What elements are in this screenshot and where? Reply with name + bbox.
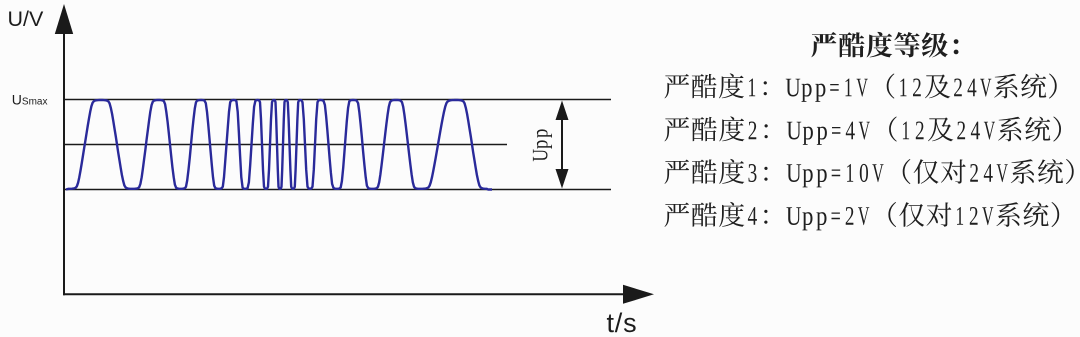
severity line 4 [665,202,1060,231]
title 严酷度等级： [811,32,958,58]
label Upp (rotated) [533,129,552,161]
x-axis arrowhead [623,285,654,304]
Upp arrowhead top [556,101,569,121]
Upp arrowhead bottom [556,169,569,189]
y-axis [63,30,65,295]
y-axis arrowhead [55,4,73,34]
top envelope line [64,99,611,101]
middle zero line [64,144,507,146]
svg-text:U/V: U/V [8,7,45,31]
bottom envelope line [64,189,611,191]
severity line 3 [665,159,1074,188]
severity line 1 [665,73,1057,102]
severity line 2 [665,116,1062,144]
svg-text:USmax: USmax [12,91,48,107]
swept sine waveform [66,100,492,190]
x-axis [63,293,628,295]
Upp dimension arrow shaft [561,112,563,177]
svg-text:t/s: t/s [607,308,638,337]
